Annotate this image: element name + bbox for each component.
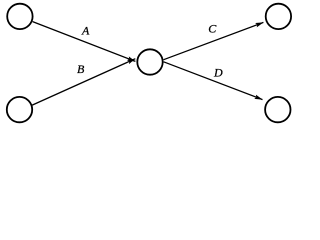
svg-text:C: C — [208, 22, 217, 36]
node circle bottom-right — [265, 97, 290, 122]
wire arrow C — [164, 22, 264, 59]
node circle bottom-left — [7, 97, 32, 122]
svg-text:A: A — [81, 24, 90, 38]
svg-text:D: D — [213, 66, 223, 80]
node circle top-left — [7, 4, 32, 29]
node circle top-right — [266, 4, 291, 29]
wire arrow B — [32, 59, 135, 105]
node circle center — [137, 49, 162, 74]
svg-text:B: B — [77, 62, 85, 76]
wire arrow D — [164, 62, 263, 100]
wire arrow A — [33, 22, 136, 62]
